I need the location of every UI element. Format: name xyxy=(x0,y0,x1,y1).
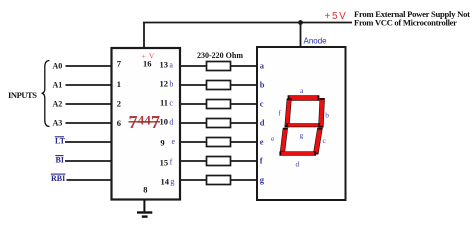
label RBI with overline xyxy=(51,174,66,183)
svg-text:16: 16 xyxy=(143,59,152,69)
svg-text:A2: A2 xyxy=(53,100,63,109)
svg-text:a: a xyxy=(260,61,265,71)
resistor g xyxy=(207,176,231,185)
wire resistor a to display xyxy=(231,65,258,67)
wire c to resistor xyxy=(180,103,207,105)
svg-text:b: b xyxy=(169,80,173,89)
wire f to resistor xyxy=(180,160,207,162)
svg-text:e: e xyxy=(260,137,264,147)
svg-text:c: c xyxy=(260,99,264,109)
wire resistor f to display xyxy=(231,160,258,162)
svg-text:f: f xyxy=(260,156,263,166)
wire g to resistor xyxy=(180,179,207,181)
svg-text:d: d xyxy=(260,118,265,128)
segment f xyxy=(284,98,291,127)
svg-text:g: g xyxy=(300,131,304,140)
pin 12 b xyxy=(160,78,174,88)
pin 14 g xyxy=(161,177,175,187)
svg-text:g: g xyxy=(170,177,174,186)
svg-text:BI: BI xyxy=(56,156,64,165)
brace inputs xyxy=(42,61,50,127)
svg-text:1: 1 xyxy=(117,79,121,89)
segment d xyxy=(279,151,316,155)
wire resistor g to display xyxy=(231,179,258,181)
svg-text:Anode: Anode xyxy=(304,36,328,45)
wire +5V rail horizontal xyxy=(143,22,352,24)
wire e to resistor xyxy=(180,141,207,143)
svg-text:13: 13 xyxy=(160,59,169,69)
svg-text:A1: A1 xyxy=(53,81,63,90)
wire RBI xyxy=(67,179,112,181)
wire A1 xyxy=(66,84,112,86)
junction dot anode node xyxy=(298,20,303,25)
wire a to resistor xyxy=(180,65,207,67)
wire resistor c to display xyxy=(231,103,258,105)
pin 11 c xyxy=(160,97,173,107)
wire d to resistor xyxy=(180,122,207,124)
resistor b xyxy=(207,81,231,90)
svg-text:10: 10 xyxy=(160,116,169,126)
label 7447 xyxy=(129,112,161,132)
wire b to resistor xyxy=(180,84,207,86)
svg-text:6: 6 xyxy=(117,118,121,128)
resistor f xyxy=(207,157,231,166)
svg-text:c: c xyxy=(169,99,173,108)
pin 15 f xyxy=(160,157,173,167)
svg-text:12: 12 xyxy=(160,78,169,88)
wire A3 xyxy=(66,122,112,124)
svg-text:9: 9 xyxy=(160,138,164,148)
pin 9 e xyxy=(160,137,175,147)
label BI with overline xyxy=(55,156,64,165)
wire LT xyxy=(65,141,112,143)
wire A2 xyxy=(66,103,112,105)
pin 10 d xyxy=(160,116,174,126)
segment e xyxy=(280,128,288,155)
IC 7447 body xyxy=(112,48,181,200)
resistor e xyxy=(207,138,231,147)
svg-text:d: d xyxy=(296,160,300,169)
svg-text:15: 15 xyxy=(160,157,169,167)
svg-text:11: 11 xyxy=(160,97,168,107)
svg-text:2: 2 xyxy=(117,99,121,109)
svg-text:230-220 Ohm: 230-220 Ohm xyxy=(197,51,243,60)
svg-text:b: b xyxy=(260,80,265,90)
wire BI xyxy=(65,160,112,162)
segment g xyxy=(286,123,320,127)
display body xyxy=(257,47,346,200)
svg-text:g: g xyxy=(260,175,265,185)
svg-text:+5V: +5V xyxy=(325,11,348,22)
svg-text:INPUTS: INPUTS xyxy=(8,90,37,100)
wire from rail down to 7447 pin 16 xyxy=(143,23,145,49)
svg-text:From VCC of Microcontroller: From VCC of Microcontroller xyxy=(354,18,457,28)
svg-text:RBI: RBI xyxy=(51,174,65,183)
svg-text:8: 8 xyxy=(143,184,147,194)
label LT with overline xyxy=(55,137,66,146)
segment b xyxy=(318,98,325,128)
wire from rail down to display anode xyxy=(300,23,302,48)
pin 13 a xyxy=(160,59,174,69)
svg-text:7: 7 xyxy=(117,59,122,69)
wire resistor d to display xyxy=(231,122,258,124)
svg-text:e: e xyxy=(172,137,176,146)
segment a xyxy=(288,95,320,101)
svg-text:f: f xyxy=(170,158,173,167)
svg-text:A0: A0 xyxy=(53,62,63,71)
resistor c xyxy=(207,100,231,109)
svg-text:14: 14 xyxy=(161,177,170,187)
wire A0 xyxy=(66,65,112,67)
svg-text:A3: A3 xyxy=(53,119,63,128)
resistor d xyxy=(207,119,231,128)
svg-text:d: d xyxy=(169,118,173,127)
wire resistor b to display xyxy=(231,84,258,86)
segment c xyxy=(313,128,323,155)
wire resistor e to display xyxy=(231,141,258,143)
resistor a xyxy=(207,62,231,71)
svg-text:LT: LT xyxy=(55,137,66,146)
svg-text:b: b xyxy=(325,111,329,120)
ground xyxy=(137,200,152,217)
svg-text:a: a xyxy=(169,61,173,70)
